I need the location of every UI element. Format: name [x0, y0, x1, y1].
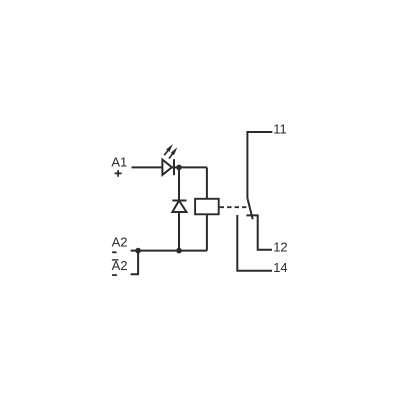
wire down to relay coil	[206, 167, 208, 198]
minus polarity mark under A2	[112, 251, 117, 253]
wire LED to corner	[172, 166, 207, 168]
LED light arrow 1	[164, 144, 173, 155]
relay coil K1	[195, 199, 219, 215]
svg-text:14: 14	[273, 260, 287, 275]
LED D1 cathode bar	[173, 159, 175, 175]
junction node diode to rail	[176, 248, 182, 254]
wire junction to diode	[178, 167, 180, 200]
contact stub 12	[246, 215, 272, 249]
relay moving contact	[247, 198, 252, 219]
wire relay coil to bottom rail	[206, 214, 208, 250]
wire terminal 11	[247, 132, 272, 198]
junction node A2/A2bar	[135, 248, 141, 254]
bottom rail wire A2	[131, 250, 207, 252]
svg-text:11: 11	[273, 121, 287, 136]
LED D1 triangle	[162, 160, 172, 175]
wire terminal 14	[237, 215, 272, 271]
svg-text:A1: A1	[111, 154, 127, 169]
diode V1 cathode bar	[172, 200, 186, 202]
minus polarity mark under A2bar	[112, 274, 117, 276]
dashed actuation link	[220, 206, 247, 208]
overline of A2bar	[112, 259, 119, 261]
svg-text:12: 12	[273, 239, 287, 254]
LED light arrow 2	[169, 147, 177, 158]
svg-text:A2: A2	[112, 235, 128, 250]
junction node at LED cathode	[176, 165, 182, 171]
wire A2bar branch	[131, 251, 139, 275]
diode V1 triangle	[172, 201, 186, 213]
wire diode to bottom rail	[178, 212, 180, 251]
wire A1 to LED	[132, 166, 163, 168]
plus polarity mark	[115, 170, 122, 177]
